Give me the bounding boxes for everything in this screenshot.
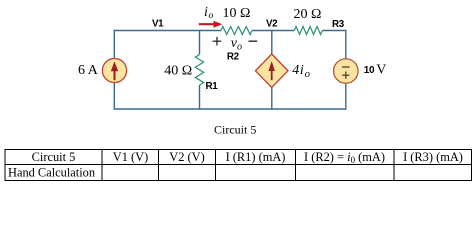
wire dependent-source branch upper: [271, 30, 273, 55]
wire right lower (10V source to bottom corner): [345, 83, 347, 110]
table outer left border: [4, 149, 6, 181]
svg-text:R2: R2: [227, 52, 240, 63]
svg-text:R1: R1: [206, 81, 219, 92]
table outer top border: [5, 149, 472, 151]
label - of v_o: [249, 40, 258, 42]
svg-text:V2 (V): V2 (V): [169, 150, 204, 164]
wire R1 branch lower: [199, 85, 201, 110]
voltage source plus sign: [342, 72, 349, 79]
svg-text:R3: R3: [332, 19, 345, 30]
svg-text:Circuit 5: Circuit 5: [214, 123, 256, 137]
table column divider 4: [295, 149, 297, 181]
table row divider: [5, 164, 472, 166]
svg-text:vo: vo: [231, 36, 242, 53]
wire left lower (6A source to bottom corner): [113, 83, 115, 110]
svg-text:I (R2) = i0 (mA): I (R2) = i0 (mA): [304, 150, 385, 165]
table column divider 3: [215, 149, 217, 181]
wire top segment R3 to right corner: [322, 30, 346, 32]
wire dependent-source branch lower: [271, 87, 273, 110]
wire R1 branch upper: [199, 30, 201, 55]
svg-text:V1 (V): V1 (V): [113, 150, 148, 164]
label + of v_o: [213, 37, 222, 46]
svg-text:40 Ω: 40 Ω: [164, 64, 192, 79]
table column divider 5: [393, 149, 395, 181]
table grid: [5, 149, 472, 181]
svg-text:Circuit 5: Circuit 5: [32, 150, 76, 164]
table column divider 1: [101, 149, 103, 181]
svg-text:6 A: 6 A: [78, 63, 99, 78]
dependent source 4i_o diamond: [255, 54, 288, 87]
resistor R2 zigzag 10ohm: [221, 27, 252, 35]
wire left upper (top corner to 6A source): [113, 30, 115, 59]
svg-text:4io: 4io: [292, 63, 310, 80]
voltage source V 10V circle: [334, 59, 359, 84]
dependent source arrow: [269, 61, 275, 80]
wire top segment V1: left corner to R2: [114, 30, 221, 32]
wire right upper (top corner to 10V source): [345, 30, 347, 59]
current source I1 arrow: [111, 61, 118, 80]
svg-text:10 Ω: 10 Ω: [223, 6, 251, 21]
resistor R3 zigzag 20ohm: [294, 27, 322, 35]
svg-text:20 Ω: 20 Ω: [294, 7, 322, 22]
svg-text:I (R3) (mA): I (R3) (mA): [403, 150, 463, 164]
wire top segment R2 to R3 (node V2): [252, 30, 294, 32]
table outer bottom border: [5, 180, 472, 182]
wire bottom: [114, 108, 345, 110]
current arrow i_o: [199, 21, 223, 28]
svg-text:V: V: [376, 63, 386, 78]
svg-text:io: io: [204, 5, 213, 21]
svg-text:V1: V1: [152, 19, 164, 30]
svg-text:Hand Calculation: Hand Calculation: [8, 165, 95, 179]
table column divider 2: [158, 149, 160, 181]
current source I1 6A circle: [102, 58, 126, 82]
table outer right border: [471, 149, 473, 181]
svg-text:I (R1) (mA): I (R1) (mA): [226, 150, 286, 164]
voltage source minus sign: [342, 66, 350, 68]
svg-text:10: 10: [364, 65, 375, 76]
svg-text:V2: V2: [266, 18, 278, 29]
resistor R1 zigzag 40ohm: [195, 55, 203, 86]
